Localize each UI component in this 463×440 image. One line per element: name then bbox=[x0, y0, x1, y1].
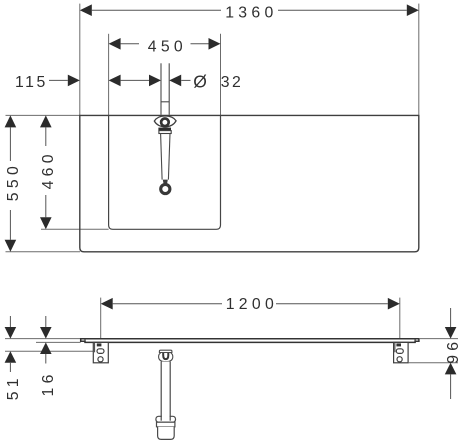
dimension 115 leader left bbox=[49, 79, 68, 81]
dimension 460 arrow bottom bbox=[40, 217, 52, 229]
dimension 115 / diameter 32 shared leader bbox=[121, 79, 149, 81]
dimension 51 line with arrows bbox=[5, 316, 17, 372]
siphon cup band bbox=[157, 422, 175, 427]
dimension 460 line bbox=[45, 127, 47, 217]
svg-text:32: 32 bbox=[221, 74, 244, 91]
left bracket hole bbox=[98, 357, 103, 362]
dimension diameter32 arrow left bbox=[149, 75, 161, 87]
siphon cup rim bbox=[156, 416, 176, 422]
right bracket hole bbox=[397, 357, 402, 362]
dimension 115 arrow left bbox=[68, 75, 80, 87]
dimension 1200 extension line right bbox=[399, 298, 401, 339]
dimension 550 top extension bbox=[6, 114, 80, 116]
dimension 96 bottom extension (bracket bottom right) bbox=[408, 362, 458, 364]
dimension 450 arrow left bbox=[109, 38, 121, 50]
siphon top bar bbox=[159, 350, 172, 352]
dimension 16 bottom extension (slab bottom) bbox=[36, 341, 81, 343]
dimension 550 line bbox=[9, 127, 11, 239]
dimension 51 top extension (slab top) bbox=[5, 338, 81, 340]
dimension 550 arrow top bbox=[5, 115, 17, 127]
dimension 1360 arrow left bbox=[80, 4, 92, 16]
right bracket pin bbox=[396, 343, 401, 346]
siphon outlet outer loop bbox=[159, 352, 173, 361]
left bracket slot bbox=[97, 349, 104, 354]
dimension 115 arrow right bbox=[109, 75, 121, 87]
dimension diameter32 leader right bbox=[181, 79, 190, 81]
basin cut-out (plan view) bbox=[109, 115, 221, 229]
dimension 450 line bbox=[121, 43, 209, 45]
svg-text:450: 450 bbox=[148, 38, 187, 55]
drain rod upper (plan view) bbox=[161, 63, 169, 115]
dimension 450 arrow right bbox=[209, 38, 221, 50]
svg-text:51: 51 bbox=[5, 374, 22, 400]
right bracket bbox=[394, 342, 409, 362]
dimension 460 arrow top bbox=[40, 115, 52, 127]
dimension 460 bottom extension bbox=[41, 228, 109, 230]
console outline (plan view) bbox=[80, 115, 419, 251]
dimension 96 top extension (slab top right) bbox=[419, 338, 458, 340]
chain ring bbox=[161, 184, 170, 193]
dimension 550 bottom extension bbox=[6, 251, 81, 253]
svg-text:1200: 1200 bbox=[226, 296, 278, 313]
svg-text:96: 96 bbox=[445, 338, 462, 364]
svg-text:1360: 1360 bbox=[225, 4, 277, 21]
dimension 1360 line bbox=[92, 9, 407, 11]
drain rod lower (plan view) bbox=[161, 134, 170, 180]
left bracket bbox=[93, 342, 108, 362]
right bracket slot bbox=[396, 349, 403, 354]
dimension 1200 arrow right bbox=[388, 298, 400, 310]
dimension 96 line with arrows bbox=[445, 308, 457, 399]
console slab (side view) bbox=[81, 339, 419, 343]
pop-up waste collar lower bbox=[159, 131, 171, 134]
svg-text:Ø: Ø bbox=[193, 72, 209, 92]
left bracket inner line bbox=[94, 343, 96, 352]
slab right end cap bbox=[414, 339, 416, 343]
dimension 16 line with arrows bbox=[40, 316, 52, 364]
dimension 450 extension line right bbox=[220, 34, 222, 115]
siphon pipe bbox=[161, 362, 170, 421]
dimension 450 extension line left bbox=[108, 34, 110, 115]
dimension 1360 arrow right bbox=[407, 4, 419, 16]
svg-text:115: 115 bbox=[15, 74, 48, 91]
siphon cup body bbox=[158, 427, 175, 440]
svg-text:16: 16 bbox=[40, 370, 57, 396]
pop-up waste ring bbox=[161, 119, 169, 127]
left bracket pin bbox=[97, 343, 102, 346]
dimension 1200 arrow left bbox=[101, 298, 113, 310]
dimension 550 arrow bottom bbox=[5, 240, 17, 252]
siphon outlet inner hook bbox=[163, 352, 168, 359]
dimension 1200 line bbox=[113, 303, 388, 305]
svg-text:550: 550 bbox=[5, 162, 22, 201]
dimension 1360 extension line left bbox=[79, 4, 81, 116]
svg-text:460: 460 bbox=[40, 150, 57, 189]
dimension 1200 extension line left bbox=[100, 298, 102, 339]
slab left end cap bbox=[84, 339, 86, 343]
dimension 51 bottom extension (slot centre) bbox=[5, 350, 97, 352]
dimension diameter32 arrow right bbox=[169, 75, 181, 87]
chain ring neck bbox=[163, 180, 168, 184]
right bracket inner line bbox=[394, 343, 396, 352]
pop-up waste wings bbox=[154, 116, 176, 127]
pop-up waste collar upper (dark) bbox=[158, 128, 171, 131]
dimension 1360 extension line right bbox=[418, 4, 420, 116]
